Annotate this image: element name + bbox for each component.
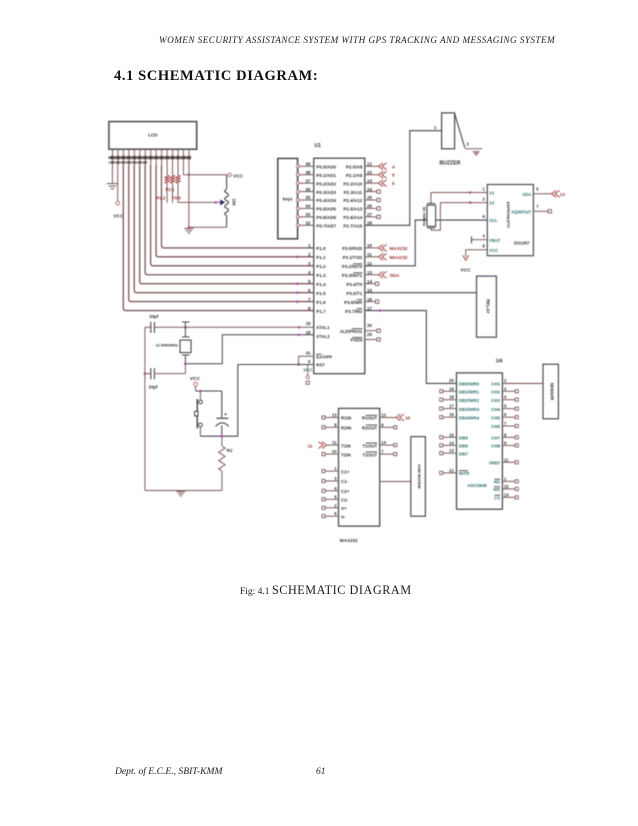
serial driver MAX232: [339, 408, 380, 543]
U4 right pin names: [489, 381, 501, 500]
svg-text:P3.2/INT0: P3.2/INT0: [342, 264, 363, 269]
svg-text:DS1307: DS1307: [514, 241, 530, 246]
svg-text:9: 9: [504, 440, 507, 445]
svg-text:X2: X2: [489, 201, 495, 206]
svg-text:3: 3: [504, 386, 507, 391]
svg-text:13: 13: [449, 448, 454, 453]
svg-text:DB5: DB5: [459, 436, 468, 441]
svg-text:R2: R2: [227, 448, 233, 453]
svg-text:14: 14: [367, 279, 373, 284]
svg-text:7: 7: [308, 297, 311, 302]
U4 left pin names: [459, 381, 480, 476]
svg-text:4: 4: [308, 270, 311, 275]
svg-text:7: 7: [536, 204, 539, 209]
RTC U3 DS1307: [487, 185, 533, 256]
svg-text:EEPROM,RTC: EEPROM,RTC: [506, 202, 511, 229]
svg-text:17: 17: [449, 404, 454, 409]
svg-text:P2.4/A12: P2.4/A12: [343, 198, 362, 203]
svg-text:23: 23: [504, 492, 509, 497]
wire MAX232 to GSM modem: [380, 481, 411, 483]
svg-text:21: 21: [449, 468, 454, 473]
svg-text:5: 5: [504, 404, 507, 409]
svg-text:P0.0/AD0: P0.0/AD0: [316, 165, 336, 170]
wire X2 to crystal: [431, 201, 487, 230]
svg-text:CH6: CH6: [491, 424, 500, 429]
buzzer BZ1: [434, 113, 482, 167]
svg-text:VREF: VREF: [489, 461, 501, 466]
svg-text:CH8: CH8: [491, 444, 500, 449]
svg-text:12: 12: [381, 413, 386, 418]
U1 EA/VPP and RST pin names: [306, 350, 333, 367]
svg-text:P1.1: P1.1: [316, 255, 326, 260]
svg-text:1: 1: [482, 186, 485, 191]
svg-text:P1.5: P1.5: [316, 291, 326, 296]
crystal X1 11.0592MHz: [156, 322, 191, 364]
svg-text:14: 14: [381, 440, 386, 445]
svg-text:T1IN: T1IN: [341, 443, 351, 448]
SQW/OUT stub terminal: [533, 210, 551, 213]
svg-text:6: 6: [308, 288, 311, 293]
microcontroller U1 8051: [314, 143, 365, 374]
svg-text:P3.3/INT1: P3.3/INT1: [342, 273, 363, 278]
svg-text:1: 1: [504, 476, 507, 481]
svg-text:VBAT: VBAT: [489, 238, 501, 243]
svg-text:VCC: VCC: [460, 267, 471, 273]
svg-text:24: 24: [367, 187, 373, 192]
svg-text:P2.2/A10: P2.2/A10: [343, 181, 362, 186]
svg-text:5: 5: [392, 173, 395, 178]
svg-text:19: 19: [306, 321, 311, 326]
svg-text:P2.5/A13: P2.5/A13: [343, 207, 362, 212]
svg-text:10K: 10K: [232, 198, 237, 206]
svg-text:CH1: CH1: [491, 381, 500, 386]
svg-text:4: 4: [504, 395, 507, 400]
MAX232 right pin names: [362, 416, 378, 458]
svg-text:C2+: C2+: [341, 489, 350, 494]
svg-text:P2.1/A9: P2.1/A9: [346, 173, 363, 178]
junction dots on P1 wires: [296, 256, 299, 303]
svg-text:32: 32: [305, 221, 311, 226]
svg-text:P0.4/AD4: P0.4/AD4: [316, 198, 336, 203]
svg-text:MAX232: MAX232: [390, 246, 408, 251]
U4 right stubs terminals: [502, 390, 518, 499]
svg-text:16: 16: [367, 297, 373, 302]
svg-text:2: 2: [334, 503, 337, 508]
svg-text:P3.6/WR: P3.6/WR: [344, 300, 363, 305]
wire P3.2 to DS1307 SCL: [365, 220, 488, 266]
U1 XTAL pin names and numbers: [306, 321, 331, 339]
wire P3.5 to relay: [365, 292, 477, 294]
svg-text:CH4: CH4: [491, 407, 500, 412]
wire XTAL2 net: [184, 334, 314, 366]
svg-text:XTAL1: XTAL1: [316, 325, 330, 330]
potentiometer 10K: [225, 175, 237, 228]
svg-text:18: 18: [306, 330, 311, 335]
wire bus LCD data to P1: [123, 165, 313, 311]
capacitor C1 33pf: [145, 314, 159, 333]
U4 left stubs terminals: [440, 390, 457, 475]
svg-text:P0.7/AD7: P0.7/AD7: [316, 224, 336, 229]
U1 left pin names P0: [316, 165, 336, 229]
svg-text:RD: RD: [494, 480, 500, 485]
svg-text:P2.1: P2.1: [165, 187, 175, 192]
svg-text:CS: CS: [494, 496, 500, 501]
svg-text:11: 11: [332, 440, 337, 445]
keys block: [278, 158, 298, 238]
svg-text:DB2/WR2: DB2/WR2: [459, 398, 480, 403]
svg-text:3: 3: [308, 261, 311, 266]
svg-text:19: 19: [449, 386, 454, 391]
wire CH1 to sensor: [502, 382, 543, 384]
svg-text:7: 7: [381, 449, 384, 454]
svg-text:10: 10: [332, 449, 337, 454]
wire P2.7 to buzzer: [365, 131, 442, 226]
svg-text:2: 2: [482, 197, 485, 202]
section title: [114, 68, 318, 85]
T1IN chevron net 11: [308, 442, 339, 449]
U3 left pin names and numbers: [482, 186, 500, 252]
VCC terminal (LCD pin 2): [113, 165, 124, 220]
svg-text:39: 39: [305, 162, 311, 167]
wire P3.7 to ADC DB0: [365, 309, 457, 383]
svg-text:38: 38: [305, 170, 311, 175]
svg-text:P1.2: P1.2: [316, 264, 326, 269]
svg-text:CH3: CH3: [491, 398, 500, 403]
svg-text:P0.1/AD1: P0.1/AD1: [316, 173, 336, 178]
wire XTAL1 net: [154, 326, 313, 329]
svg-text:CH5: CH5: [491, 415, 500, 420]
P2.0-P2.2 stubs with chevrons and net numbers 4 5 6: [365, 163, 395, 187]
svg-text:XTAL2: XTAL2: [316, 334, 330, 339]
svg-text:21: 21: [367, 162, 373, 167]
svg-text:11: 11: [308, 443, 313, 448]
VCC terminal (reset): [190, 376, 201, 391]
MAX232 left pin numbers: [332, 413, 337, 517]
relay: [477, 276, 497, 337]
svg-text:P3.0/RXD: P3.0/RXD: [342, 246, 363, 251]
svg-text:1: 1: [334, 466, 337, 471]
svg-text:BUZZER: BUZZER: [440, 161, 461, 167]
svg-text:P2.0: P2.0: [172, 195, 182, 200]
svg-text:P2.3/A11: P2.3/A11: [344, 190, 363, 195]
svg-text:P2.6/A14: P2.6/A14: [343, 215, 362, 220]
LCD pin labels row: [108, 156, 191, 164]
svg-text:30: 30: [367, 323, 372, 328]
svg-text:11: 11: [504, 457, 509, 462]
wire LCD pin13 to potentiometer wiper: [178, 183, 225, 205]
svg-text:29: 29: [367, 332, 372, 337]
svg-text:P3.4/T0: P3.4/T0: [346, 282, 362, 287]
svg-text:SQW/OUT: SQW/OUT: [511, 209, 531, 214]
svg-text:T1OUT: T1OUT: [362, 443, 377, 448]
crystal X2 32.768KHz: [422, 193, 435, 231]
svg-text:P1.3: P1.3: [316, 273, 326, 278]
svg-text:R2IN: R2IN: [341, 426, 351, 431]
ground (buzzer): [473, 151, 480, 153]
svg-text:P2.0/A8: P2.0/A8: [346, 165, 363, 170]
svg-text:35: 35: [305, 195, 311, 200]
svg-text:9: 9: [381, 422, 384, 427]
svg-text:keys: keys: [283, 197, 293, 202]
svg-text:P2.2: P2.2: [156, 195, 166, 200]
svg-text:4: 4: [334, 486, 337, 491]
page header text: [159, 35, 551, 45]
svg-text:13: 13: [332, 413, 337, 418]
svg-text:VCC: VCC: [190, 376, 201, 382]
svg-text:5: 5: [536, 186, 539, 191]
svg-text:C2-: C2-: [341, 498, 349, 503]
wire reset top rail: [196, 390, 222, 393]
svg-text:3: 3: [334, 476, 337, 481]
svg-text:DB4/WR4: DB4/WR4: [459, 415, 480, 420]
svg-text:V-: V-: [341, 514, 346, 519]
svg-text:16: 16: [449, 412, 454, 417]
svg-text:6: 6: [334, 511, 337, 516]
P3.3 stub with chevron SDA net: [365, 271, 400, 278]
P3.6 stub terminal: [365, 300, 379, 303]
U4 right pin numbers: [504, 378, 509, 497]
svg-text:27: 27: [367, 212, 373, 217]
svg-text:P0.6/AD6: P0.6/AD6: [316, 215, 336, 220]
EA pin stub to VCC: [297, 356, 313, 366]
wire left rail to ground: [145, 327, 222, 490]
resistor network P2.1/P2.2/P2.0: [156, 165, 181, 203]
svg-text:11: 11: [367, 252, 372, 257]
svg-text:8: 8: [308, 306, 311, 311]
keys to P0 wires: [296, 165, 313, 227]
svg-text:P1.4: P1.4: [316, 282, 326, 287]
U1 right pin names P3: [342, 246, 363, 314]
LCD module: [109, 122, 197, 150]
LCD pins: [113, 149, 189, 165]
svg-text:ALE/PROG: ALE/PROG: [340, 329, 363, 334]
svg-text:CH7: CH7: [491, 436, 500, 441]
svg-text:P1.7: P1.7: [316, 309, 326, 314]
VCC terminal (EA/RST): [303, 365, 313, 385]
svg-text:2: 2: [467, 142, 470, 147]
svg-text:VCC: VCC: [233, 173, 244, 179]
svg-text:6: 6: [392, 181, 395, 186]
svg-text:SDA: SDA: [522, 192, 531, 197]
svg-text:DB1/WR1: DB1/WR1: [459, 390, 480, 395]
U1 P1 pin numbers 1-8: [308, 243, 311, 311]
svg-text:VCC: VCC: [113, 214, 124, 220]
svg-text:5: 5: [334, 494, 337, 499]
ground (crystal rail): [176, 491, 185, 493]
svg-text:2: 2: [308, 252, 311, 257]
svg-text:MAX232: MAX232: [390, 255, 408, 260]
svg-text:13: 13: [560, 192, 566, 197]
svg-text:20: 20: [449, 378, 454, 383]
svg-text:22: 22: [504, 484, 509, 489]
resistor R2: [219, 436, 233, 490]
svg-text:10: 10: [405, 416, 411, 421]
svg-text:R1IN: R1IN: [341, 416, 351, 421]
svg-text:15: 15: [449, 432, 454, 437]
svg-text:6: 6: [482, 214, 485, 219]
svg-text:34: 34: [305, 204, 311, 209]
wire X1 to crystal: [431, 191, 487, 194]
VCC terminal (pot): [228, 173, 244, 179]
svg-text:RELAY: RELAY: [486, 299, 491, 314]
svg-text:P2.7/A15: P2.7/A15: [343, 224, 362, 229]
svg-text:P0.2/AD2: P0.2/AD2: [316, 181, 336, 186]
push button reset switch: [195, 391, 222, 436]
svg-text:36: 36: [305, 187, 311, 192]
svg-text:31: 31: [306, 350, 311, 355]
svg-text:8: 8: [504, 432, 507, 437]
svg-text:8: 8: [482, 244, 485, 249]
P3.4 stub terminal: [365, 282, 379, 285]
svg-text:T2IN: T2IN: [341, 452, 351, 457]
svg-text:R1OUT: R1OUT: [362, 416, 378, 421]
svg-text:T2OUT: T2OUT: [362, 452, 377, 457]
VBAT stub: [472, 236, 488, 243]
figure caption: [240, 583, 412, 598]
P2.3-P2.6 stubs with terminals: [365, 190, 381, 219]
svg-text:14: 14: [449, 440, 454, 445]
svg-text:18: 18: [449, 395, 454, 400]
svg-text:1: 1: [434, 125, 437, 130]
svg-text:2: 2: [504, 378, 507, 383]
svg-text:RST: RST: [316, 363, 325, 368]
svg-text:10: 10: [367, 243, 373, 248]
svg-text:C1+: C1+: [341, 469, 350, 474]
svg-text:EA/VPP: EA/VPP: [316, 354, 332, 359]
svg-text:33pf: 33pf: [148, 385, 158, 390]
svg-text:32.768KHz: 32.768KHz: [422, 207, 427, 227]
U1 ALE PSEN pin names terminals: [340, 323, 380, 343]
U1 right pin numbers 21-28: [367, 162, 373, 226]
svg-text:P3.7/RD: P3.7/RD: [345, 309, 363, 314]
svg-text:6: 6: [504, 412, 507, 417]
svg-text:CH2: CH2: [491, 390, 500, 395]
U1 right pin numbers 10-17: [367, 243, 373, 311]
ground (LCD pin 1): [107, 165, 118, 189]
svg-text:PSEN: PSEN: [351, 338, 363, 343]
svg-text:9: 9: [308, 359, 311, 364]
VCC arrow (U3 pin 8): [460, 250, 487, 274]
capacitor C2 33pf: [144, 364, 186, 390]
svg-text:P0.5/AD5: P0.5/AD5: [316, 207, 336, 212]
svg-text:VCC: VCC: [489, 248, 498, 253]
svg-text:DB6: DB6: [459, 444, 468, 449]
svg-text:SCL: SCL: [489, 218, 498, 223]
page footer text: [115, 766, 222, 777]
svg-text:33: 33: [305, 212, 311, 217]
svg-text:8: 8: [334, 422, 337, 427]
svg-text:26: 26: [367, 204, 373, 209]
svg-text:1: 1: [308, 243, 311, 248]
svg-text:SDA: SDA: [390, 273, 400, 278]
svg-text:P1.6: P1.6: [316, 300, 326, 305]
svg-text:22: 22: [367, 170, 373, 175]
svg-text:37: 37: [305, 178, 311, 183]
R1OUT chevron net 10: [380, 414, 411, 421]
wire VCC rail to potentiometer: [183, 165, 226, 176]
svg-text:7: 7: [504, 421, 507, 426]
svg-text:WE: WE: [493, 487, 500, 492]
svg-text:R2OUT: R2OUT: [362, 426, 378, 431]
svg-text:GSM MODEM: GSM MODEM: [417, 464, 421, 488]
svg-text:13: 13: [367, 270, 373, 275]
svg-text:DB3/WR3: DB3/WR3: [459, 407, 480, 412]
svg-text:+: +: [224, 412, 227, 418]
overline marks on active-low pin names: [316, 264, 500, 495]
svg-text:11.0592MHz: 11.0592MHz: [156, 343, 178, 348]
svg-text:MAX232: MAX232: [340, 538, 358, 543]
svg-text:33pf: 33pf: [149, 314, 159, 319]
U1 left pin numbers 39-32: [305, 162, 311, 226]
svg-text:U4: U4: [496, 359, 503, 365]
svg-text:ADC0848: ADC0848: [467, 483, 487, 488]
U4 left pin numbers: [449, 378, 454, 473]
P3.0 P3.1 stubs with chevrons to MAX232 net: [365, 245, 408, 261]
MAX232 left pin names: [341, 416, 351, 520]
sensor block: [543, 364, 558, 419]
svg-text:P0.3/AD3: P0.3/AD3: [316, 190, 336, 195]
svg-text:DB7: DB7: [459, 451, 468, 456]
svg-text:V+: V+: [341, 506, 347, 511]
U3 right pin names and numbers: [511, 186, 539, 214]
MAX232 left stubs terminals: [322, 416, 339, 518]
SDA chevron net 13: [533, 190, 565, 197]
wire RST net: [222, 365, 314, 437]
svg-text:U1: U1: [315, 143, 322, 149]
capacitor C3 electrolytic: [216, 391, 229, 438]
GSM modem block: [411, 437, 426, 517]
ground (LCD / pot): [184, 165, 226, 233]
svg-text:VCC: VCC: [303, 367, 313, 372]
svg-text:4: 4: [392, 164, 395, 169]
svg-text:DB0/WR0: DB0/WR0: [459, 381, 480, 386]
MAX232 right stubs terminals: [380, 426, 397, 456]
MAX232 right pin numbers: [381, 413, 386, 455]
svg-text:INTR: INTR: [459, 471, 470, 476]
svg-text:C1-: C1-: [341, 479, 349, 484]
svg-text:25: 25: [367, 195, 373, 200]
U1 P1 pin names: [316, 246, 326, 314]
ADC U4 ADC0848: [457, 359, 503, 510]
U1 right pin names P2: [343, 165, 362, 229]
svg-text:X1: X1: [489, 191, 495, 196]
svg-text:5: 5: [308, 279, 311, 284]
svg-text:SENSOR: SENSOR: [550, 383, 555, 401]
svg-text:P3.5/T1: P3.5/T1: [346, 291, 362, 296]
svg-text:LCD: LCD: [148, 133, 158, 138]
svg-text:3: 3: [482, 234, 485, 239]
svg-text:P1.0: P1.0: [316, 246, 326, 251]
svg-text:23: 23: [367, 178, 373, 183]
svg-text:P3.1/TXD: P3.1/TXD: [343, 255, 363, 260]
